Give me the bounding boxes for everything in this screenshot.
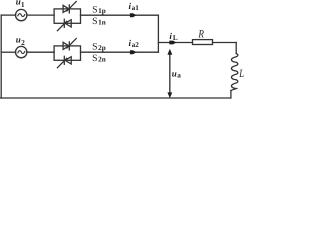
wire source u2 to box [27,51,54,53]
wire source u2 left lead [1,51,15,53]
ac source u2 [16,46,27,57]
svg-text:R: R [198,29,205,41]
wire source u1 left lead [1,14,15,16]
svg-text:1n: 1n [98,18,106,26]
svg-text:S: S [92,41,97,52]
svg-text:a1: a1 [132,4,140,12]
wire right vertical top [235,43,237,54]
svg-text:a: a [177,72,181,80]
wire box1 output [81,14,159,16]
wire resistor to corner [213,42,237,44]
inductor L [231,54,238,91]
voltage arrow u_a [167,49,172,99]
wire left bus vertical [0,15,2,98]
svg-text:L: L [239,68,245,80]
wire right vertical bottom [230,91,232,99]
current arrow i_a1 [130,13,137,17]
current arrow i_a2 [130,50,137,54]
svg-text:S: S [92,16,97,27]
wire output node vertical [157,15,159,52]
resistor R [193,40,213,45]
svg-text:2: 2 [21,38,25,47]
svg-text:a2: a2 [132,41,140,49]
svg-text:S: S [92,53,97,64]
wire box1 loop rectangle [54,9,80,23]
svg-text:1: 1 [21,0,25,9]
current arrow i_L [169,41,176,45]
wire bottom rail [1,97,231,99]
thyristor S1n [57,19,71,30]
thyristor S2p [63,39,76,50]
svg-text:u: u [16,35,21,45]
wire box2 loop rectangle [54,46,80,60]
wire box2 output [81,51,159,53]
svg-text:L: L [173,34,178,42]
ac source u1 [16,9,27,20]
svg-text:u: u [172,68,177,78]
svg-text:1p: 1p [98,7,106,15]
svg-text:2p: 2p [98,44,106,52]
thyristor S1p [63,2,76,13]
wire load top [158,42,192,44]
thyristor S2n [57,56,71,67]
svg-text:2n: 2n [98,55,106,63]
svg-text:S: S [92,4,97,15]
wire source u1 to box [27,14,54,16]
